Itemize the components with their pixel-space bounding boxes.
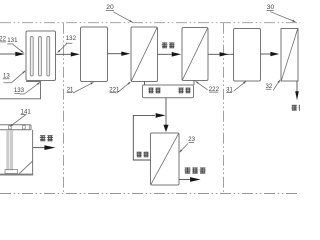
svg-text:131: 131	[7, 37, 18, 44]
svg-text:20: 20	[106, 4, 114, 11]
svg-text:133: 133	[14, 87, 25, 94]
svg-text:132: 132	[66, 35, 77, 42]
svg-text:122: 122	[0, 36, 7, 43]
